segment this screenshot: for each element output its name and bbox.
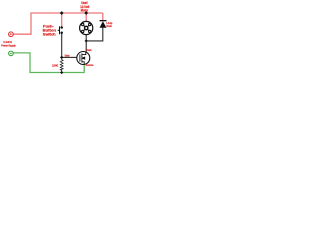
push button switch S1: top contact [60,26,63,29]
wire: motor branch drop (red) [85,13,87,22]
push button switch S1: actuator bar [59,26,60,34]
junction: gate node [60,56,63,59]
push button switch S1: bottom contact [60,32,63,35]
junction: resistor to ground rail [60,71,63,74]
push button switch S1: stem [58,30,59,31]
motor M1: lobes and hub [81,23,91,33]
MOSFET Q1: drain stub [82,52,86,55]
wire: switch bottom to gate node (black) [61,34,63,58]
MOSFET Q1: source stub [82,62,84,65]
wire: drain node right to diode anode (black) [86,28,103,41]
resistor R1 10K pull-down (zigzag) [60,59,63,72]
wire: +12V feed from plus terminal up and across top (red) [13,13,103,34]
MOSFET Q1: channel bar [81,53,83,62]
svg-text:Source: Source [86,63,94,67]
svg-text:Power-Supply: Power-Supply [1,43,16,47]
MOSFET Q1: body arrow [82,57,85,59]
diode D1: cathode bar [100,20,107,21]
junction: top rail / switch branch [60,11,64,15]
motor M1: body [80,21,93,34]
wire: switch branch drop (red) [61,13,63,27]
wire: MOSFET source to ground rail back to - terminal (green) [13,53,84,73]
MOSFET Q1: gate bar [79,54,81,61]
power supply - terminal [9,51,14,56]
junction: top rail / motor branch [84,11,88,15]
diode D1: anode triangle (pointing up) [100,21,107,27]
svg-text:Diode: Diode [106,24,112,28]
svg-text:10K: 10K [52,64,59,68]
svg-text:Drain: Drain [86,48,91,52]
junction: motor / drain / diode node [85,39,88,42]
svg-text:Motor: Motor [81,9,89,13]
svg-text:Switch: Switch [43,32,56,36]
wire: diode cathode drop (red) [102,13,104,20]
power supply + terminal [9,32,14,37]
wire: motor bottom to MOSFET drain (black) [85,35,87,52]
svg-text:Gate: Gate [65,54,70,58]
wire: gate node to MOSFET gate (black) [62,56,77,58]
MOSFET Q1: body circle [77,52,90,65]
